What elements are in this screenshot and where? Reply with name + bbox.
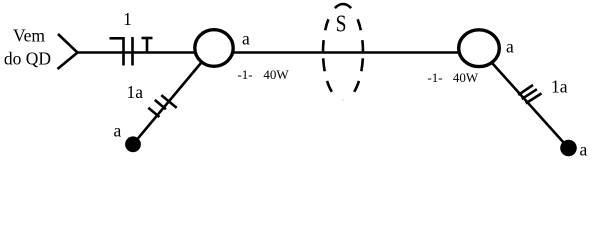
svg-text:1a: 1a (551, 77, 568, 97)
conductor mark: long crossing tick on left switch leg (161, 95, 176, 108)
lamp E1 circle (195, 30, 233, 67)
junction: dashed conduit ellipse S (left half) (323, 4, 343, 100)
svg-text:a: a (114, 121, 122, 141)
conductor mark: phase tick on feeder (131, 37, 134, 66)
wire: feeder arrow chevron from QD (58, 34, 78, 69)
conductor mark: return tick 2 on right switch leg (522, 89, 537, 99)
conductor mark: short return tick 2 on left switch leg (155, 100, 166, 109)
conductor mark: neutral tick with top-left bar on feeder (110, 37, 124, 66)
node: feeder label "Vem do QD" (4, 26, 51, 69)
wire: switch leg from lamp 2 down-right to switch a (480, 49, 569, 148)
svg-text:1: 1 (123, 9, 132, 29)
switch S2 dot (560, 140, 577, 157)
svg-text:a: a (242, 28, 250, 48)
switch S1 dot (125, 136, 141, 152)
svg-text:-1-: -1- (427, 70, 442, 85)
svg-text:a: a (580, 140, 588, 160)
svg-text:Vem: Vem (13, 26, 45, 46)
svg-text:40W: 40W (453, 70, 479, 85)
svg-text:do QD: do QD (4, 49, 51, 69)
conductor mark: return tick 1 on right switch leg (518, 85, 533, 95)
svg-text:1a: 1a (127, 82, 144, 102)
conductor mark: short return tick 1 on left switch leg (148, 108, 159, 117)
wire: main horizontal run from chevron to lamp 2 (78, 51, 480, 54)
conductor mark: return tick 3 on right switch leg (526, 93, 542, 103)
lamp E2 circle (459, 30, 500, 67)
label: S on conduit ellipse (336, 9, 347, 37)
svg-text:S: S (336, 9, 347, 37)
svg-text:-1-: -1- (237, 67, 252, 82)
svg-text:a: a (506, 36, 514, 56)
svg-text:40W: 40W (263, 67, 289, 82)
wire: switch leg from lamp 1 down-left to switch a (133, 48, 214, 144)
junction: dashed conduit ellipse S (right half) (343, 4, 363, 100)
conductor mark: return T symbol on feeder (142, 38, 153, 54)
